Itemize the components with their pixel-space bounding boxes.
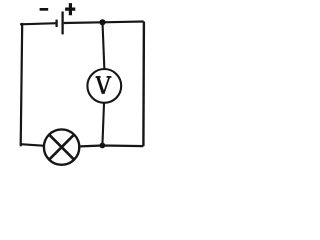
lamp L1 cross stroke 1 — [49, 134, 75, 160]
node: top junction dot — [99, 19, 105, 25]
label V inside voltmeter — [96, 77, 112, 94]
lamp L1 (circle) — [44, 129, 79, 164]
wire: top segment from battery positive to top-right corner — [64, 22, 144, 24]
node: bottom junction dot — [100, 143, 106, 149]
battery B1 negative short plate — [55, 20, 57, 27]
wire: voltmeter branch upper segment — [103, 22, 105, 70]
wire: bottom segment from lamp to bottom-left corner — [21, 144, 43, 146]
lamp L1 cross stroke 2 — [49, 134, 75, 160]
wire: right vertical side — [142, 22, 145, 147]
wire: left vertical side — [21, 24, 23, 145]
battery B1 positive long plate — [61, 12, 63, 35]
label - (battery negative) — [40, 8, 49, 11]
wire: top-left segment from left corner to battery negative plate — [21, 23, 56, 24]
wire: bottom segment from right corner to lamp — [80, 144, 143, 147]
wire: voltmeter branch lower segment — [102, 104, 104, 146]
label + (battery positive) — [65, 3, 75, 15]
voltmeter V (meter circle) — [87, 69, 121, 103]
